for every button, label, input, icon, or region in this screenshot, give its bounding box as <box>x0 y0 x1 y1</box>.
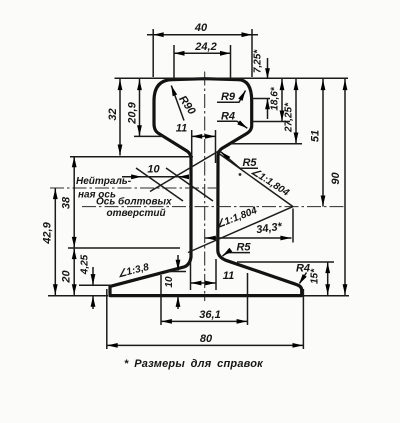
svg-text:42,9: 42,9 <box>42 221 54 244</box>
svg-text:27,25*: 27,25* <box>284 102 295 133</box>
dimension 32 <box>119 79 121 156</box>
rail profile outline <box>110 79 302 296</box>
svg-text:40: 40 <box>194 22 208 34</box>
dimension 18.6* <box>281 79 283 122</box>
svg-text:4,25: 4,25 <box>80 254 91 275</box>
svg-text:18,6*: 18,6* <box>270 86 281 110</box>
svg-text:20,9: 20,9 <box>127 101 139 124</box>
svg-text:32: 32 <box>107 108 119 120</box>
extension line bottom left <box>48 295 108 297</box>
dimension 80 <box>107 344 304 346</box>
extension line 24.2 left <box>173 45 175 78</box>
extension line 7.25 <box>251 98 270 100</box>
svg-text:10: 10 <box>164 276 175 288</box>
dimension 7.25* <box>267 58 269 79</box>
slope line left of web dim <box>136 168 183 201</box>
dimension 40 <box>147 34 258 36</box>
extension line 38 bottom <box>68 247 180 249</box>
svg-text:R4: R4 <box>296 263 310 275</box>
svg-text:R90: R90 <box>176 94 198 118</box>
leader R90 <box>171 86 184 121</box>
extension tick 10 foot <box>165 271 186 273</box>
extension line head bottom (32) <box>70 156 193 158</box>
svg-text:11: 11 <box>176 123 187 135</box>
svg-text:∠1:1,804: ∠1:1,804 <box>249 166 291 199</box>
dimension 15* <box>327 262 329 295</box>
svg-text:10: 10 <box>147 164 160 176</box>
dimension 20 <box>73 248 75 295</box>
extension line 40 right <box>251 29 253 77</box>
taper line lower <box>188 207 293 253</box>
dimension 42.9 <box>54 188 56 295</box>
svg-text:34,3*: 34,3* <box>256 221 284 237</box>
svg-text:отверстий: отверстий <box>107 208 166 219</box>
top extension line <box>115 77 349 79</box>
svg-text:20: 20 <box>61 270 73 284</box>
extension line 27.25 <box>231 143 302 145</box>
extension lines 80 <box>106 289 108 349</box>
svg-text:36,1: 36,1 <box>199 309 220 321</box>
dimension 51 <box>322 79 324 207</box>
extension line bottom right <box>303 295 349 297</box>
svg-text:* Размеры для справок: * Размеры для справок <box>124 358 264 370</box>
svg-text:24,2: 24,2 <box>194 41 216 53</box>
svg-text:∠1:1,804: ∠1:1,804 <box>215 205 259 231</box>
svg-text:15*: 15* <box>310 268 321 284</box>
svg-text:90: 90 <box>330 172 342 185</box>
extension line 18.6 <box>253 121 290 123</box>
dimension 36.1 <box>161 320 248 322</box>
vertical centerline <box>204 72 206 302</box>
svg-text:38: 38 <box>61 196 73 209</box>
dimension 24.2 <box>174 52 231 54</box>
extension line 34.3 right <box>292 209 294 243</box>
dimension 27.25* <box>295 79 297 144</box>
neutral axis line <box>50 187 218 189</box>
extension line 24.2 right <box>230 45 232 78</box>
svg-text:R5: R5 <box>236 242 251 254</box>
dimension 20.9 <box>139 79 141 136</box>
extension lines 11 foot <box>190 262 192 290</box>
extension lines 36.1 <box>160 275 162 325</box>
dimension 90 <box>344 79 346 295</box>
extension line under 20.9 <box>134 135 163 137</box>
taper line upper right <box>218 153 294 207</box>
slope line right of web dim <box>166 168 213 201</box>
svg-text:80: 80 <box>200 333 213 345</box>
extension line 4.25 <box>79 284 112 286</box>
extension line 40 left <box>152 29 154 77</box>
extension line 15* <box>237 261 334 263</box>
svg-text:Ось болтовых: Ось болтовых <box>96 196 172 208</box>
extension lines 11 head <box>191 130 193 157</box>
svg-text:51: 51 <box>310 130 322 142</box>
svg-text:Нейтраль-: Нейтраль- <box>76 176 132 187</box>
dimension 4.25 <box>92 267 94 285</box>
svg-text:7,25*: 7,25* <box>253 49 264 73</box>
dimension 34.3* <box>205 237 292 239</box>
svg-text:11: 11 <box>223 270 234 282</box>
taper line crossing web <box>150 151 220 192</box>
svg-text:R9: R9 <box>221 91 236 103</box>
dimension 38 <box>73 156 75 248</box>
bolt holes axis line <box>82 206 345 208</box>
